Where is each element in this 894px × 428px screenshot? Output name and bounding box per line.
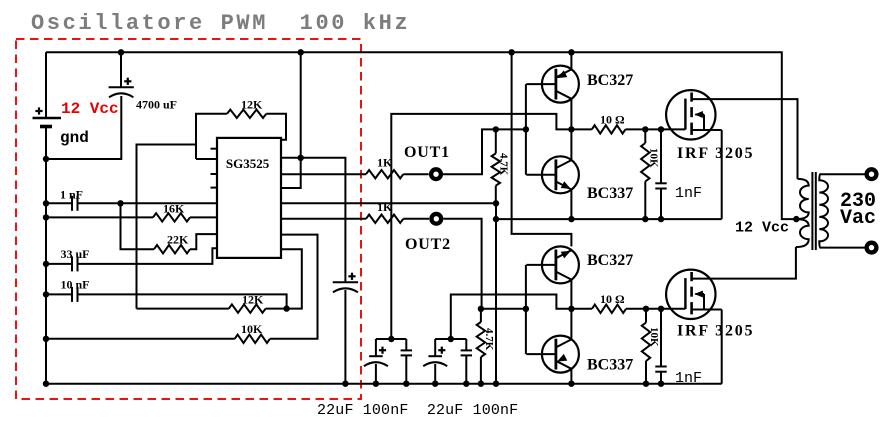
svg-text:16K: 16K [163, 202, 185, 216]
transistor M2 IRF 3205 MOSFET channel 2 [666, 270, 715, 319]
svg-text:10 Ω: 10 Ω [600, 112, 625, 126]
junction gnd return corner [493, 200, 499, 206]
capacitor C9 100nF bank 1 [405, 339, 407, 350]
capacitor C6 1nF gate channel 1 [660, 129, 662, 183]
junction on top rail at BC327 Q1 emitter [568, 49, 574, 55]
svg-text:10K: 10K [648, 327, 660, 347]
resistor R3 16K with wire [43, 214, 49, 220]
svg-text:33 uF: 33 uF [61, 247, 90, 261]
capacitor C8 22uF bank 1 electrolytic [375, 339, 377, 356]
wire: Q2 collector to drive node [570, 129, 572, 160]
svg-text:BC327: BC327 [587, 72, 633, 89]
svg-text:12K: 12K [242, 292, 264, 306]
wire: SG3525 Vcc feed from top rail [281, 52, 301, 188]
svg-text:IRF 3205: IRF 3205 [677, 145, 754, 162]
wire: M1 drain to transformer primary top [692, 99, 798, 179]
wire: SG3525 gnd return to channel 1 [281, 202, 496, 204]
capacitor C4 10 nF with wire [43, 291, 49, 297]
junction driver bases channel 2 [523, 306, 529, 312]
resistor R8 1K output B [281, 218, 366, 220]
transistor Q2 BC337 lower channel 1 [542, 156, 579, 193]
wire: Q4 collector to drive node [570, 309, 572, 340]
wire: 12K to SG3525 pin [196, 158, 217, 160]
wire: bank 1 bracket [376, 338, 406, 340]
wire: battery negative / gnd left rail [45, 159, 47, 384]
junction drive node channel 2 [568, 306, 574, 312]
junction gnd rail / 4700uF return [43, 156, 49, 162]
svg-text:gnd: gnd [60, 129, 89, 147]
resistor R7 1K output A [281, 173, 366, 175]
svg-text:4.7K: 4.7K [498, 153, 510, 176]
junction on top rail at 4700uF [118, 49, 124, 55]
resistor R11 10K gate-source channel 1 [644, 129, 646, 143]
wire: secondary bottom to terminal [820, 247, 865, 249]
junction bank 1 top [388, 336, 394, 342]
junction gate node 2 / 10K [643, 306, 649, 312]
node OUT1 terminal [429, 167, 443, 181]
red dashed boundary box of oscillator section [16, 39, 361, 399]
wire: M1 source to channel 1 gnd [721, 130, 723, 219]
junction gate node / 10K [642, 126, 648, 132]
svg-text:1 nF: 1 nF [60, 188, 83, 202]
wire: SG3525 to timing capacitor [281, 158, 345, 282]
wire: bank 2 bracket [435, 338, 466, 340]
wire: +12 feed to Q3 emitter [512, 52, 572, 246]
pin stub left 2 [211, 187, 218, 189]
wire: Q1 collector to drive node [570, 99, 572, 130]
capacitor C2 1 nF with wire to SG3525 [43, 200, 49, 206]
pin stub left 0 [211, 148, 218, 150]
svg-text:10K: 10K [648, 148, 660, 168]
capacitor C10 22uF bank 2 electrolytic [434, 339, 436, 356]
svg-text:22uF 100nF 22uF 100nF: 22uF 100nF 22uF 100nF [317, 402, 518, 419]
wire: bases vertical channel 1 [525, 84, 527, 175]
node 230 Vac terminal upper [864, 167, 878, 181]
capacitor C7 1nF gate channel 2 [660, 309, 662, 367]
transformer T1 primary winding lower half [796, 219, 809, 247]
node OUT2 terminal [429, 212, 443, 226]
junction 12K/10nF node [283, 305, 289, 311]
transistor Q3 BC327 upper channel 2 [542, 246, 579, 283]
capacitor C5 timing electrolytic [333, 281, 358, 283]
junction bottom rail / C5 [342, 381, 348, 387]
wire: M2 source to bottom rail [721, 310, 723, 384]
svg-text:22K: 22K [167, 233, 189, 247]
pin stub left 1 [211, 173, 218, 175]
wire: secondary top to terminal [820, 173, 865, 175]
resistor R6 10K bottom with wire to SG3525 [43, 336, 49, 342]
junction driver bases channel 1 [523, 126, 529, 132]
junction 1nF node [117, 200, 123, 206]
wire: 22uF bank 2 to drive node [451, 295, 572, 340]
resistor R14 10K gate-source channel 2 [645, 309, 647, 323]
resistor R12 4.7K pull channel 2 [478, 306, 484, 312]
resistor R2 12K top feedback [196, 114, 227, 159]
wire: OUT2 to driver bases channel 2 [443, 219, 526, 309]
svg-text:1nF: 1nF [675, 370, 702, 387]
capacitor C3 33 uF with wire [43, 261, 49, 267]
junction bottom rail left [43, 381, 49, 387]
svg-text:BC327: BC327 [587, 252, 633, 269]
svg-text:12 Vcc: 12 Vcc [61, 100, 119, 118]
resistor R10 10 Ohm gate channel 1 [571, 128, 591, 130]
node center tap 12 Vcc [793, 216, 799, 222]
wire: +12V top rail [46, 52, 796, 219]
wire: Q3 collector to drive node [570, 280, 572, 309]
svg-text:10 Ω: 10 Ω [600, 292, 625, 306]
svg-text:12 Vcc: 12 Vcc [735, 220, 789, 237]
capacitor C11 100nF bank 2 [465, 339, 467, 350]
svg-text:BC337: BC337 [587, 185, 633, 202]
transistor Q1 BC327 upper channel 1 [542, 66, 579, 103]
wire: Q4 emitter to bottom rail [570, 369, 572, 384]
transformer core [811, 172, 813, 250]
transistor M1 IRF 3205 MOSFET channel 1 [666, 90, 715, 139]
resistor R4 22K with wire from 1nF node [121, 203, 155, 249]
wire: 12K left lead branch to lower RC chain [137, 145, 197, 309]
junction Q4 emitter / bottom rail [568, 381, 574, 387]
junction Q2 emitter / gnd wire [568, 216, 574, 222]
node 230 Vac terminal lower [864, 241, 878, 255]
svg-text:1nF: 1nF [675, 185, 702, 202]
wire: bases vertical channel 2 [525, 265, 527, 354]
resistor R13 10 Ohm gate channel 2 [571, 308, 592, 310]
junction on top rail at BC327 Q3 feed [508, 49, 514, 55]
svg-text:12K: 12K [241, 98, 263, 112]
resistor R9 4.7K pull channel 1 [493, 126, 499, 132]
svg-text:10 nF: 10 nF [61, 278, 90, 292]
wire: Q2 emitter to channel gnd [570, 190, 572, 220]
resistor R5 12K lower with wire to SG3525 [137, 308, 229, 310]
svg-text:10K: 10K [241, 322, 263, 336]
svg-text:Oscillatore PWM 100 kHz: Oscillatore PWM 100 kHz [31, 11, 410, 36]
svg-text:4.7K: 4.7K [483, 328, 495, 351]
op-amp IC U1 SG3525 box [217, 138, 281, 258]
svg-text:OUT1: OUT1 [404, 144, 450, 161]
junction drive node channel 1 [568, 126, 574, 132]
transformer T1 primary winding upper half [796, 179, 808, 219]
wire: channel 1 gnd rail [496, 218, 722, 220]
svg-text:BC337: BC337 [587, 357, 633, 374]
capacitor C1 4700 uF electrolytic [120, 52, 122, 87]
junction Vcc feed / Ct wire [298, 155, 304, 161]
svg-text:OUT2: OUT2 [405, 236, 451, 253]
junction gate node / 1nF [658, 126, 664, 132]
transistor Q4 BC337 lower channel 2 [542, 336, 579, 373]
transformer T1 secondary winding [819, 174, 828, 247]
svg-text:IRF 3205: IRF 3205 [677, 323, 754, 340]
wire: 4.7K to bottom rail drop [495, 219, 497, 384]
wire: 22uF bank 1 to drive node (wire A) [391, 114, 571, 339]
junction on top rail at SG3525 Vcc feed [298, 49, 304, 55]
wire: 4700uF bottom return [46, 96, 121, 159]
wire: bottom gnd rail [46, 383, 722, 385]
wire: OUT1 to driver bases channel 1 [443, 129, 526, 174]
wire: M2 drain to transformer primary bottom [692, 247, 796, 279]
svg-text:4700 uF: 4700 uF [136, 98, 177, 112]
svg-text:Vac: Vac [840, 207, 876, 230]
junction gate node 2 / 1nF [658, 306, 664, 312]
battery B1 12 Vcc [45, 52, 47, 118]
junction bank 2 top [448, 336, 454, 342]
wire: Q1 emitter to +12 rail [570, 52, 572, 69]
svg-text:SG3525: SG3525 [226, 156, 270, 171]
